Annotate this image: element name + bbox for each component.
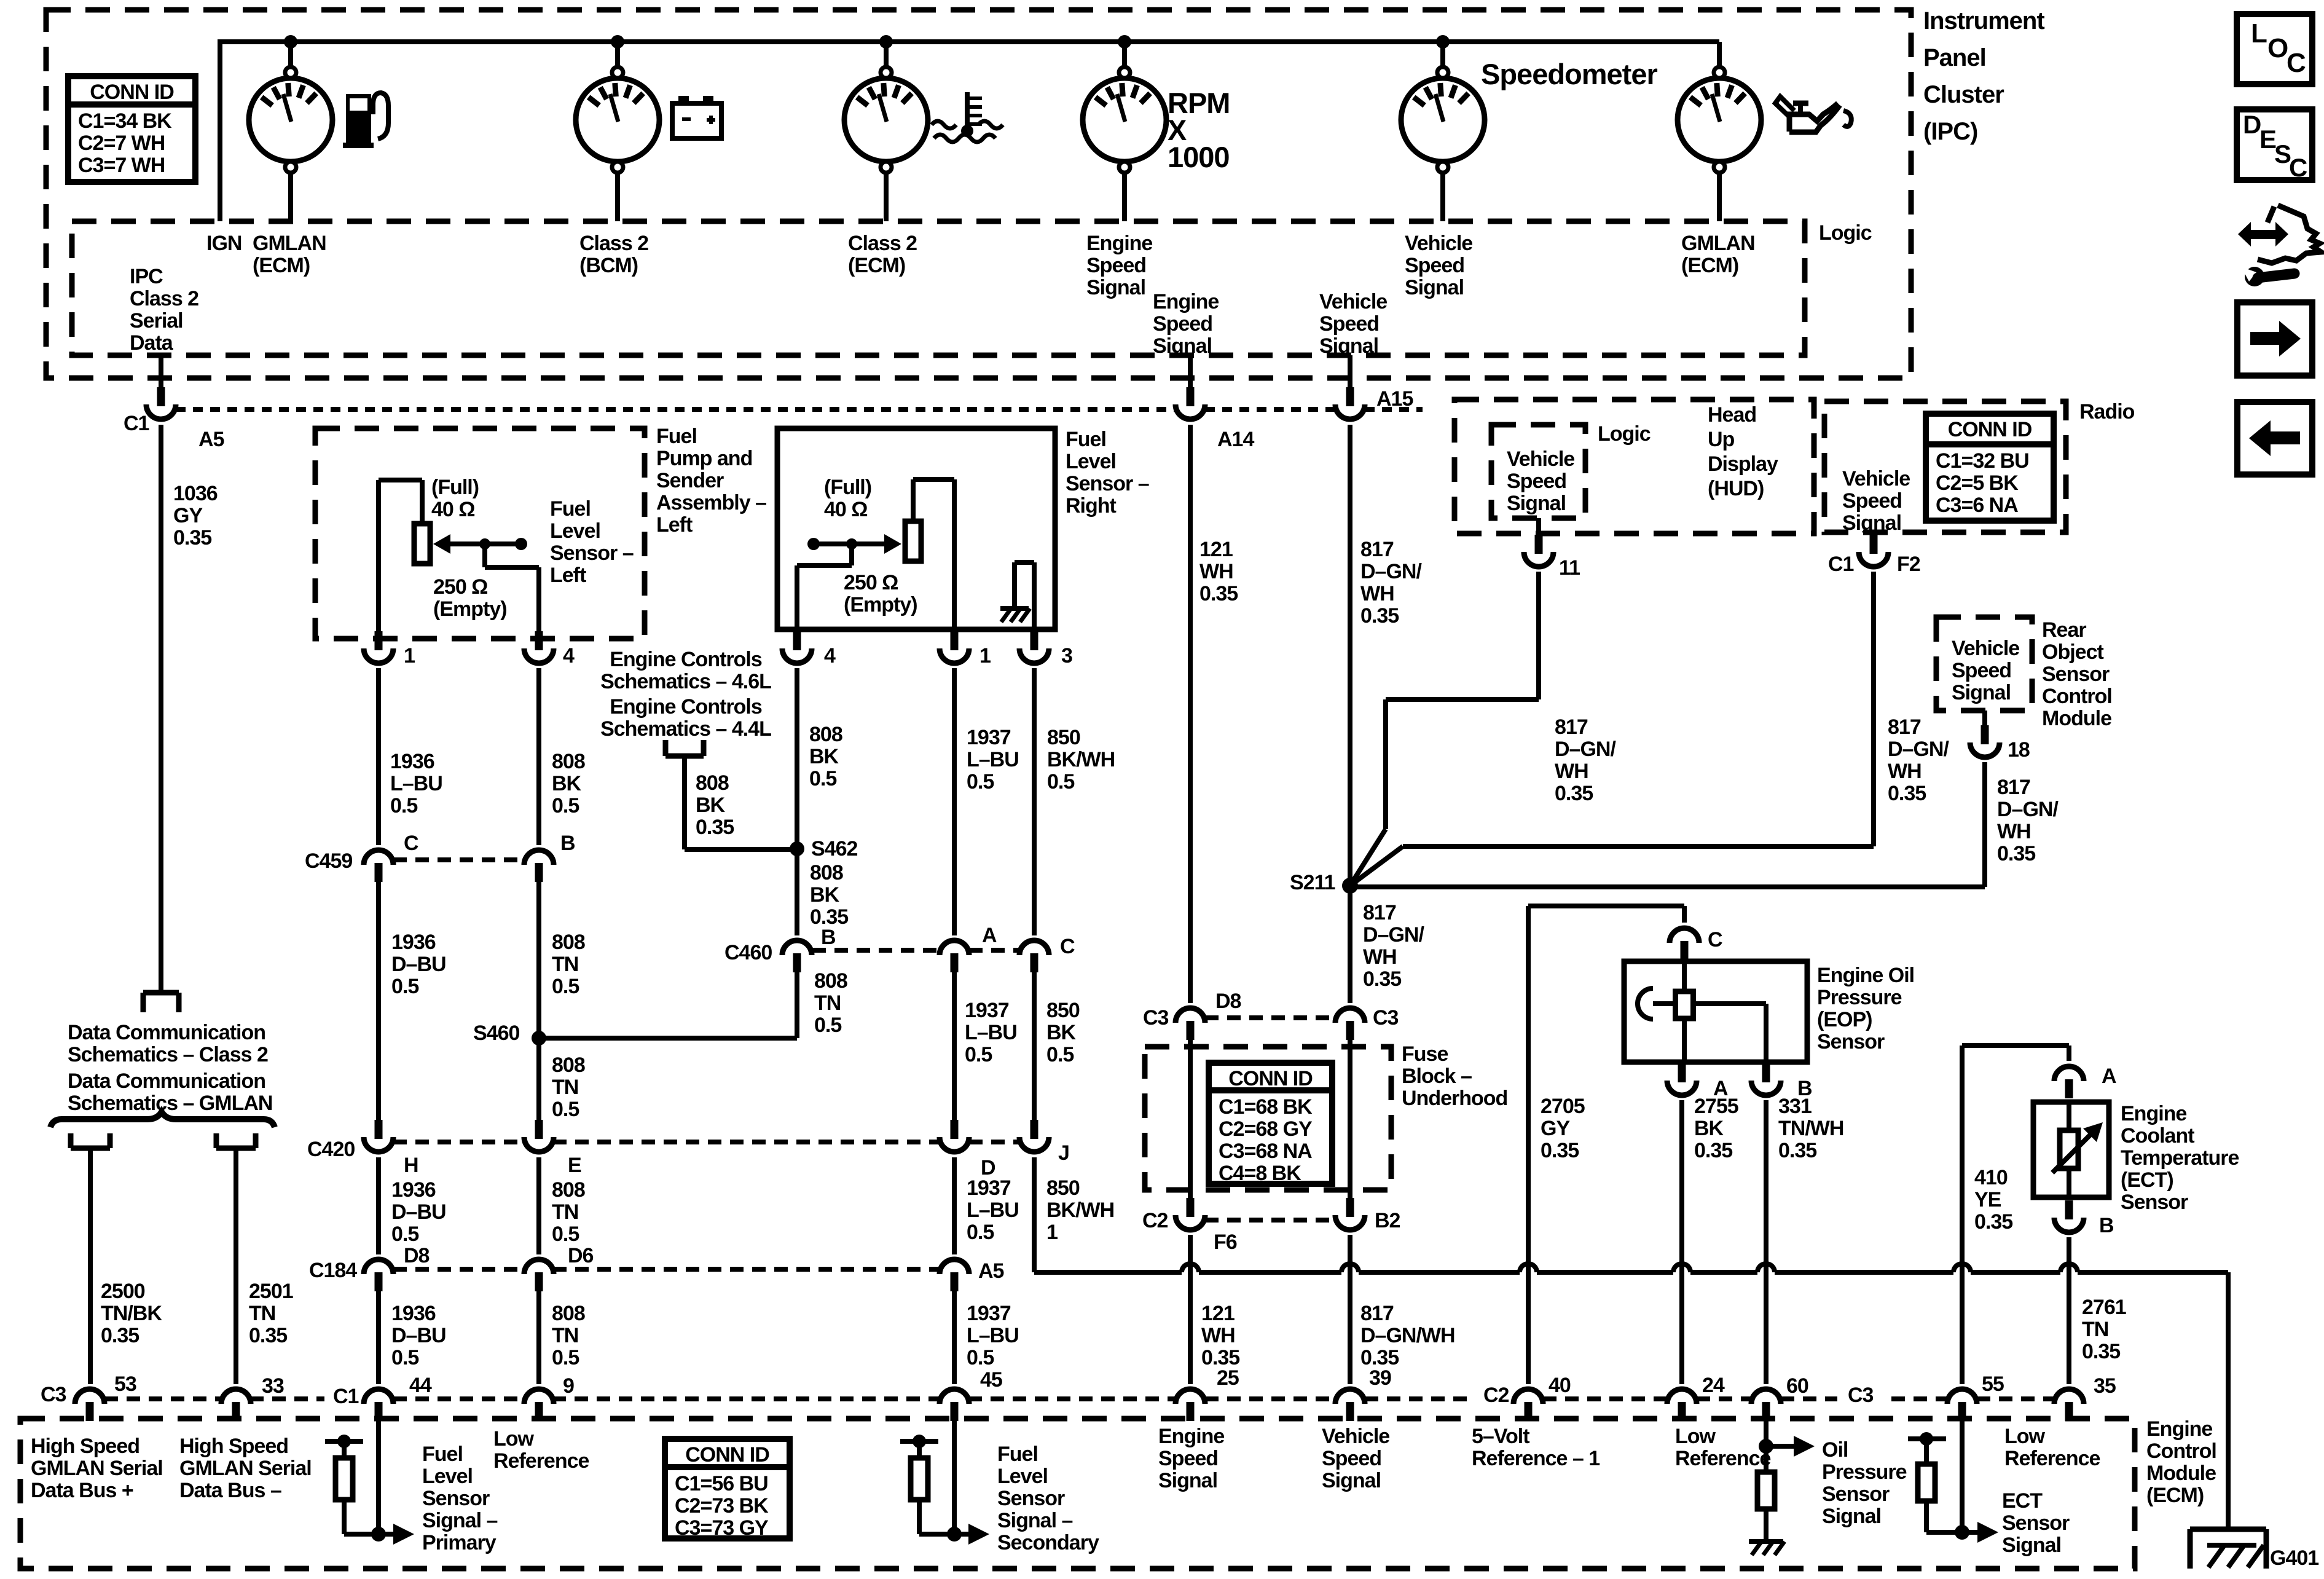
- svg-text:55: 55: [1982, 1372, 2004, 1396]
- svg-text:0.35: 0.35: [1694, 1139, 1732, 1162]
- svg-text:Up: Up: [1708, 428, 1735, 451]
- wire 1936 D-BU 0.5 C459 to C420: [376, 882, 381, 1127]
- connector ECM pin 9: [535, 1402, 543, 1421]
- svg-text:808: 808: [809, 723, 842, 746]
- svg-text:Rear: Rear: [2042, 618, 2086, 642]
- resistor fuel level primary pull-up ECM: [325, 1439, 363, 1444]
- svg-text:0.35: 0.35: [1541, 1139, 1579, 1162]
- svg-text:0.5: 0.5: [552, 1346, 579, 1369]
- splice S211: [1342, 878, 1358, 894]
- svg-text:Oil: Oil: [1822, 1438, 1848, 1462]
- svg-text:Vehicle: Vehicle: [1405, 232, 1472, 255]
- svg-text:1937: 1937: [967, 1302, 1011, 1325]
- ground symbol ECM oil pressure: [1749, 1539, 1783, 1544]
- svg-text:808: 808: [552, 1178, 585, 1202]
- svg-text:45: 45: [980, 1368, 1002, 1392]
- connector C420 pin J: [1030, 1120, 1038, 1139]
- wire ECT sensor signal ECM 55: [1960, 1421, 1965, 1532]
- svg-text:WH: WH: [1363, 945, 1397, 969]
- svg-text:C460: C460: [724, 941, 772, 964]
- connector A14 IPC: [1188, 355, 1193, 387]
- connector C420 pin E: [535, 1120, 543, 1139]
- svg-text:Fuse: Fuse: [1402, 1042, 1448, 1066]
- svg-text:BK: BK: [809, 745, 839, 768]
- svg-text:Vehicle: Vehicle: [1322, 1425, 1389, 1448]
- svg-text:Low: Low: [493, 1427, 535, 1451]
- wire 2761 TN 0.35 ECT B to ECM 35: [2067, 1237, 2071, 1384]
- svg-text:250 Ω: 250 Ω: [433, 575, 487, 599]
- svg-text:Signal: Signal: [1086, 276, 1145, 299]
- svg-text:0.35: 0.35: [101, 1324, 139, 1347]
- svg-text:817: 817: [1997, 776, 2030, 799]
- conn-id table radio C1=32 BU C2=5 BK C3=6 NA: [1926, 414, 2054, 521]
- connector 11 HUD: [1536, 518, 1541, 536]
- wire ignition bus: [218, 39, 222, 221]
- svg-text:Serial: Serial: [130, 309, 183, 333]
- svg-text:Signal –: Signal –: [422, 1509, 497, 1532]
- svg-text:0.35: 0.35: [1974, 1210, 2012, 1234]
- svg-text:BK/WH: BK/WH: [1047, 748, 1115, 771]
- svg-text:C1=32 BU: C1=32 BU: [1936, 449, 2029, 473]
- svg-text:Low: Low: [1675, 1425, 1716, 1448]
- splice S462: [790, 841, 804, 856]
- wire oil pressure sensor signal ECM 60: [1764, 1421, 1769, 1542]
- connector fuse F6: [1187, 1198, 1195, 1217]
- gauge G5: [1440, 42, 1445, 68]
- svg-text:YE: YE: [1974, 1188, 2001, 1211]
- svg-text:D–GN/: D–GN/: [1555, 738, 1616, 761]
- thermistor ECT: [2067, 1102, 2071, 1130]
- svg-text:Module: Module: [2042, 707, 2111, 730]
- connector ECM pin 33: [232, 1402, 240, 1421]
- svg-text:B2: B2: [1375, 1209, 1400, 1232]
- svg-text:Signal: Signal: [2002, 1534, 2061, 1557]
- svg-text:CONN ID: CONN ID: [1948, 418, 2032, 441]
- connector C460 pin B: [793, 953, 801, 972]
- svg-text:2705: 2705: [1541, 1095, 1585, 1118]
- svg-text:(ECM): (ECM): [1681, 254, 1738, 277]
- wire 808 BK 0.5 pin4 left to C459: [536, 668, 541, 845]
- svg-text:(ECM): (ECM): [253, 254, 310, 277]
- svg-text:0.35: 0.35: [2082, 1340, 2120, 1363]
- svg-text:BK: BK: [1694, 1117, 1724, 1140]
- arrow ECT sensor signal: [1962, 1530, 1977, 1535]
- connector row ECM C3/C1/C2/C3 (dotted): [104, 1396, 221, 1401]
- wire 1937 L-BU 0.5 pin1 right to C460: [952, 668, 957, 935]
- svg-text:C2: C2: [1483, 1384, 1509, 1407]
- svg-text:33: 33: [262, 1374, 284, 1398]
- svg-text:C: C: [404, 832, 418, 855]
- svg-text:817: 817: [1360, 1302, 1394, 1325]
- svg-text:850: 850: [1046, 1176, 1080, 1200]
- svg-text:0.5: 0.5: [552, 1098, 579, 1121]
- svg-text:(HUD): (HUD): [1708, 477, 1764, 500]
- svg-text:Module: Module: [2146, 1462, 2216, 1485]
- connector 18 rear object: [1982, 711, 1987, 726]
- svg-text:Underhood: Underhood: [1402, 1087, 1507, 1110]
- svg-text:BK: BK: [1046, 1021, 1077, 1044]
- svg-text:Speed: Speed: [1507, 470, 1566, 493]
- svg-text:B: B: [821, 926, 836, 949]
- component box Engine Oil Pressure EOP Sensor: [1624, 961, 1807, 1062]
- svg-text:WH: WH: [1997, 820, 2031, 843]
- svg-text:Engine: Engine: [1153, 290, 1219, 313]
- svg-text:TN/WH: TN/WH: [1778, 1117, 1843, 1140]
- svg-text:Panel: Panel: [1923, 44, 1986, 71]
- svg-text:817: 817: [1363, 901, 1396, 924]
- svg-text:CONN ID: CONN ID: [90, 81, 174, 104]
- svg-text:0.5: 0.5: [967, 770, 994, 793]
- svg-text:High Speed: High Speed: [179, 1435, 288, 1458]
- connector pin 1 fuel left: [375, 631, 383, 650]
- svg-text:BK: BK: [552, 772, 582, 795]
- svg-text:Radio: Radio: [2079, 400, 2135, 423]
- svg-text:Class 2: Class 2: [848, 232, 917, 255]
- svg-text:GY: GY: [173, 504, 203, 527]
- svg-text:Cluster: Cluster: [1923, 81, 2004, 108]
- svg-text:39: 39: [1369, 1366, 1391, 1390]
- svg-text:0.5: 0.5: [391, 975, 418, 998]
- svg-text:Speed: Speed: [1086, 254, 1146, 277]
- off-page bracket GMLAN bus +: [71, 1146, 110, 1151]
- svg-text:Instrument: Instrument: [1923, 7, 2044, 34]
- wiper arrow fuel level sensor right: [884, 534, 901, 554]
- svg-text:Signal: Signal: [1153, 334, 1212, 358]
- svg-text:Left: Left: [550, 564, 586, 587]
- connector fuse C3 right: [1346, 1021, 1354, 1040]
- svg-text:A5: A5: [978, 1259, 1004, 1283]
- svg-text:Fuel: Fuel: [997, 1443, 1038, 1466]
- svg-text:Sensor –: Sensor –: [550, 541, 634, 565]
- svg-text:121: 121: [1201, 1302, 1235, 1325]
- arrow fuel level signal primary: [379, 1532, 393, 1537]
- svg-text:Vehicle: Vehicle: [1952, 637, 2019, 660]
- connector ECT pin A: [2065, 1079, 2073, 1098]
- ground branch fuel right pin 3: [1032, 562, 1037, 629]
- svg-text:3: 3: [1061, 644, 1072, 667]
- pressure transducer symbol EOP: [1638, 988, 1653, 1019]
- svg-text:G401: G401: [2270, 1546, 2318, 1570]
- svg-text:1: 1: [404, 644, 415, 667]
- wire 121 WH 0.35 A14 to fuse D8: [1188, 425, 1193, 1003]
- svg-text:Vehicle: Vehicle: [1507, 447, 1574, 471]
- svg-text:C3=73 GY: C3=73 GY: [675, 1516, 769, 1540]
- svg-text:WH: WH: [1360, 582, 1394, 605]
- svg-text:Pressure: Pressure: [1817, 986, 1902, 1009]
- wire 1937 L-BU 0.5 C184 to ECM 45: [952, 1291, 957, 1384]
- svg-text:Engine: Engine: [2146, 1417, 2212, 1441]
- svg-text:E: E: [568, 1154, 581, 1177]
- svg-text:44: 44: [409, 1374, 432, 1397]
- svg-text:Reference: Reference: [493, 1449, 589, 1473]
- svg-text:C1=34 BK: C1=34 BK: [78, 109, 172, 133]
- svg-text:Engine Controls: Engine Controls: [610, 695, 762, 719]
- svg-text:1036: 1036: [173, 482, 218, 505]
- wire 808 TN 0.5 C184 to ECM 9: [536, 1291, 541, 1384]
- connector row C184 (dotted): [393, 1267, 524, 1272]
- svg-text:D–BU: D–BU: [391, 953, 446, 976]
- svg-text:A14: A14: [1217, 428, 1254, 451]
- svg-text:0.35: 0.35: [1199, 582, 1238, 605]
- legend icon arrow right: [2237, 302, 2312, 376]
- svg-text:C: C: [2287, 48, 2306, 78]
- connector row fuse C2 (dotted): [1205, 1218, 1335, 1223]
- connector row IPC C1/A14/A15 (dotted): [176, 407, 1176, 412]
- svg-text:808: 808: [810, 861, 843, 884]
- wire 410 YE 0.35 ECM 55 to ECT A: [1960, 1045, 1965, 1384]
- wire 817 D-GN/WH 0.35 fuse to ECM 39: [1348, 1235, 1352, 1384]
- icon fuel pump: [343, 143, 374, 148]
- svg-text:Signal: Signal: [1322, 1469, 1381, 1492]
- off-page bracket engine controls: [665, 754, 704, 759]
- svg-text:Logic: Logic: [1598, 422, 1651, 446]
- svg-text:Head: Head: [1708, 403, 1756, 427]
- gauge G3: [884, 42, 889, 68]
- svg-text:0.35: 0.35: [1888, 782, 1926, 805]
- svg-text:Speed: Speed: [1842, 489, 1902, 513]
- module box Head Up Display HUD (dashed): [1454, 400, 1814, 534]
- connector row C459 (dotted): [393, 857, 524, 862]
- wire 1936 D-BU 0.5 C184 to ECM 44: [376, 1291, 381, 1384]
- node bus junction gauge 1: [284, 35, 297, 49]
- wire 121 WH through fuse block: [1188, 1040, 1193, 1200]
- svg-text:1937: 1937: [965, 999, 1009, 1022]
- svg-text:Data Bus –: Data Bus –: [179, 1479, 281, 1502]
- logic box IPC Class 2 Serial Data (dashed): [72, 221, 1805, 355]
- svg-text:Schematics – 4.4L: Schematics – 4.4L: [600, 717, 771, 741]
- svg-text:A5: A5: [198, 428, 224, 451]
- svg-text:High Speed: High Speed: [31, 1435, 139, 1458]
- svg-text:Schematics – GMLAN: Schematics – GMLAN: [68, 1092, 272, 1115]
- svg-text:C3: C3: [41, 1383, 66, 1406]
- wire 817 D-GN/WH 0.35 radio to S211: [1871, 572, 1876, 846]
- svg-text:D–GN/: D–GN/: [1997, 798, 2059, 821]
- wire 808 BK 0.35 to S462: [682, 756, 687, 849]
- svg-text:Speed: Speed: [1319, 312, 1379, 336]
- svg-text:Schematics – Class 2: Schematics – Class 2: [68, 1043, 268, 1066]
- svg-text:Sensor –: Sensor –: [1066, 472, 1149, 495]
- svg-text:Right: Right: [1066, 494, 1117, 518]
- svg-text:C: C: [1060, 935, 1075, 958]
- svg-text:0.35: 0.35: [1363, 967, 1401, 991]
- module box Instrument Panel Cluster IPC (dashed): [46, 10, 1911, 378]
- svg-text:0.5: 0.5: [552, 794, 579, 817]
- off-page reference bracket data communication: [143, 990, 179, 996]
- svg-text:Reference – 1: Reference – 1: [1472, 1447, 1600, 1470]
- svg-text:0.5: 0.5: [391, 1346, 418, 1369]
- svg-text:GY: GY: [1541, 1117, 1570, 1140]
- svg-text:121: 121: [1199, 538, 1233, 561]
- svg-text:Signal: Signal: [1842, 511, 1901, 535]
- svg-text:Class 2: Class 2: [130, 287, 198, 310]
- connector ECM pin 40: [1525, 1402, 1533, 1421]
- svg-text:WH: WH: [1555, 760, 1588, 783]
- svg-text:Signal: Signal: [1822, 1505, 1881, 1528]
- svg-text:F6: F6: [1214, 1231, 1237, 1254]
- svg-text:Vehicle: Vehicle: [1319, 290, 1387, 313]
- svg-text:S211: S211: [1290, 871, 1335, 894]
- svg-text:410: 410: [1974, 1166, 2008, 1189]
- svg-text:0.5: 0.5: [809, 767, 836, 790]
- wire 850 BK/WH 1 ground run to G401: [1034, 1270, 1182, 1275]
- node bus junction gauge 4: [1118, 35, 1131, 49]
- connector pin 1 fuel right: [951, 631, 959, 650]
- connector ECM pin 35: [2065, 1402, 2073, 1421]
- svg-text:808: 808: [552, 750, 585, 773]
- svg-text:Block –: Block –: [1402, 1065, 1472, 1088]
- svg-text:4: 4: [563, 644, 575, 667]
- connector EOP pin C: [1681, 941, 1689, 960]
- svg-text:S460: S460: [473, 1022, 519, 1045]
- legend icon LOC: [2237, 14, 2312, 84]
- svg-text:Fuel: Fuel: [550, 497, 591, 521]
- svg-text:(ECM): (ECM): [848, 254, 905, 277]
- svg-text:1936: 1936: [391, 1178, 436, 1202]
- svg-text:S462: S462: [811, 837, 857, 860]
- svg-text:Level: Level: [1066, 450, 1116, 473]
- conn-id table ECM C1=56 BU C2=73 BK C3=73 GY: [665, 1439, 790, 1538]
- svg-text:250 Ω: 250 Ω: [844, 571, 898, 594]
- svg-text:WH: WH: [1201, 1324, 1235, 1347]
- svg-text:(Empty): (Empty): [433, 597, 507, 621]
- svg-text:C459: C459: [305, 849, 352, 873]
- svg-text:1: 1: [979, 644, 991, 667]
- svg-text:C1: C1: [124, 412, 149, 435]
- svg-text:L–BU: L–BU: [965, 1021, 1017, 1044]
- svg-text:TN: TN: [814, 991, 841, 1015]
- svg-text:2500: 2500: [101, 1280, 145, 1303]
- svg-text:GMLAN Serial: GMLAN Serial: [31, 1457, 163, 1480]
- svg-text:Vehicle: Vehicle: [1842, 467, 1910, 490]
- svg-text:Logic: Logic: [1819, 221, 1872, 245]
- wire 808 TN 0.5 C459 to S460: [536, 882, 541, 1127]
- svg-text:D–GN/: D–GN/: [1888, 738, 1949, 761]
- svg-text:Signal –: Signal –: [997, 1509, 1072, 1532]
- gauge G2: [615, 42, 620, 68]
- svg-text:TN: TN: [552, 953, 578, 976]
- svg-text:0.35: 0.35: [1555, 782, 1593, 805]
- svg-text:TN: TN: [552, 1324, 578, 1347]
- wire 2705 GY 0.35 EOP C to ECM 40: [1526, 906, 1531, 1384]
- svg-text:D–GN/WH: D–GN/WH: [1360, 1324, 1455, 1347]
- svg-text:Object: Object: [2042, 640, 2103, 664]
- svg-text:0.5: 0.5: [391, 1223, 418, 1246]
- svg-text:24: 24: [1702, 1374, 1725, 1397]
- svg-text:BK: BK: [696, 793, 726, 817]
- svg-text:C2=5 BK: C2=5 BK: [1936, 471, 2019, 495]
- node bus junction gauge 2: [611, 35, 624, 49]
- svg-text:Control: Control: [2146, 1439, 2216, 1463]
- component box Fuel Level Sensor Right (solid): [777, 428, 1055, 629]
- svg-text:Signal: Signal: [1507, 492, 1566, 515]
- svg-text:Speed: Speed: [1952, 659, 2011, 682]
- svg-text:C3: C3: [1848, 1384, 1874, 1407]
- svg-text:(Full): (Full): [431, 476, 479, 499]
- svg-text:C2=73 BK: C2=73 BK: [675, 1494, 769, 1518]
- resistor oil pressure ECM: [1757, 1472, 1775, 1509]
- svg-text:(EOP): (EOP): [1817, 1008, 1872, 1031]
- wire 1937 L-BU 0.5 C420 to C184: [952, 1157, 957, 1254]
- svg-text:Level: Level: [550, 519, 600, 543]
- svg-text:O: O: [2267, 33, 2288, 63]
- icon coolant temperature: [965, 92, 970, 130]
- svg-text:1000: 1000: [1168, 141, 1230, 173]
- svg-text:331: 331: [1778, 1095, 1812, 1118]
- svg-text:ECT: ECT: [2002, 1489, 2043, 1513]
- svg-text:C3: C3: [1373, 1006, 1399, 1030]
- svg-text:Data Communication: Data Communication: [68, 1021, 265, 1044]
- svg-text:Fuel: Fuel: [656, 425, 697, 448]
- icon oil can: [1789, 103, 1838, 132]
- conn-id table fuse C1=68 BK C2=68 GY C3=68 NA C4=8 BK: [1209, 1063, 1332, 1184]
- svg-text:Signal: Signal: [1952, 681, 2011, 704]
- brace data communication: [50, 1112, 275, 1127]
- connector ECM pin 25: [1187, 1402, 1195, 1421]
- legend icon diagnostic double arrow: [2247, 230, 2280, 239]
- svg-text:D6: D6: [568, 1244, 594, 1267]
- svg-text:Sensor: Sensor: [2121, 1191, 2188, 1214]
- svg-text:60: 60: [1786, 1374, 1808, 1398]
- svg-text:B: B: [2099, 1214, 2114, 1237]
- svg-text:0.5: 0.5: [967, 1221, 994, 1244]
- svg-text:D–GN/: D–GN/: [1363, 923, 1424, 947]
- wire 808 TN 0.5 C460 B to S460: [795, 972, 799, 1038]
- svg-text:C: C: [1708, 928, 1722, 951]
- arrow fuel level signal secondary: [954, 1532, 968, 1537]
- connector ECM pin 45: [951, 1402, 959, 1421]
- gauge G1: [288, 42, 293, 68]
- ground symbol fuel right: [1000, 606, 1029, 611]
- svg-text:A15: A15: [1376, 387, 1413, 411]
- svg-text:Schematics – 4.6L: Schematics – 4.6L: [600, 670, 771, 693]
- svg-text:Sensor: Sensor: [2042, 663, 2110, 686]
- svg-text:Sensor: Sensor: [2002, 1511, 2070, 1535]
- svg-text:850: 850: [1046, 999, 1080, 1022]
- svg-text:A: A: [2102, 1065, 2116, 1088]
- svg-text:Assembly –: Assembly –: [656, 491, 766, 514]
- svg-text:D–BU: D–BU: [391, 1324, 446, 1347]
- svg-text:Fuel: Fuel: [422, 1443, 463, 1466]
- svg-text:808: 808: [552, 1302, 585, 1325]
- svg-text:808: 808: [552, 931, 585, 954]
- svg-text:817: 817: [1360, 538, 1394, 561]
- resistor ECT pull-up ECM: [1908, 1436, 1946, 1441]
- connector pin 3 fuel right: [1030, 631, 1038, 650]
- connector C184 pin A5: [951, 1272, 959, 1291]
- svg-text:Display: Display: [1708, 452, 1778, 476]
- svg-text:A: A: [982, 924, 997, 947]
- svg-text:2501: 2501: [249, 1280, 293, 1303]
- connector C184 pin D6: [535, 1272, 543, 1291]
- svg-text:Control: Control: [2042, 685, 2112, 708]
- resistor fuel level sensor left: [376, 480, 381, 639]
- svg-text:Data Bus +: Data Bus +: [31, 1479, 133, 1502]
- connector A15 IPC: [1348, 355, 1352, 387]
- svg-text:11: 11: [1559, 556, 1580, 580]
- svg-text:Speedometer: Speedometer: [1481, 58, 1657, 90]
- svg-text:0.5: 0.5: [965, 1043, 992, 1066]
- svg-text:Level: Level: [422, 1465, 473, 1488]
- wire 1036 GY 0.35 from C1 A5: [159, 425, 163, 991]
- svg-text:(BCM): (BCM): [579, 254, 638, 277]
- svg-text:Speed: Speed: [1153, 312, 1212, 336]
- svg-text:TN: TN: [249, 1302, 275, 1325]
- svg-text:IPC: IPC: [130, 265, 163, 288]
- svg-text:5–Volt: 5–Volt: [1472, 1425, 1529, 1448]
- wire 850 BK/WH 1 C420 J to ground run: [1032, 1157, 1037, 1272]
- svg-text:D8: D8: [404, 1244, 430, 1267]
- svg-text:25: 25: [1217, 1366, 1239, 1390]
